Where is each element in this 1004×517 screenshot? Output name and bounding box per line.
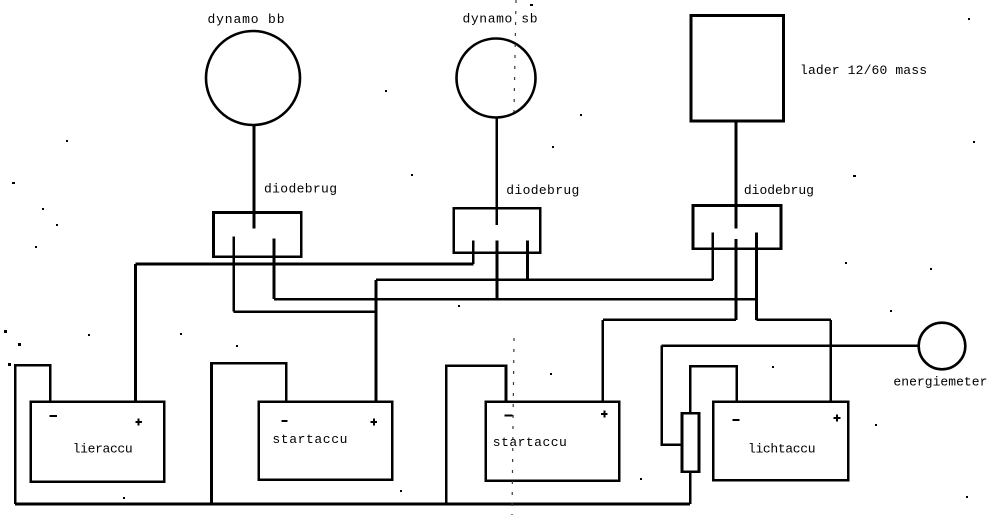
diodebrug 3 middle pin — [735, 239, 738, 320]
battery lichtaccu box — [713, 402, 848, 481]
wire energiemeter down to shunt tap — [662, 346, 682, 445]
wire y311 horizontal (diodebrug 1 left pin to startaccu1 + riser) — [234, 310, 376, 313]
svg-text:diodebrug: diodebrug — [264, 182, 337, 197]
svg-text:lichtaccu: lichtaccu — [748, 442, 816, 457]
diodebrug 2 middle pin — [496, 240, 499, 299]
plus terminal lieraccu — [135, 419, 142, 426]
plus terminal lichtaccu — [834, 415, 841, 422]
wire net y264 horizontal (lieraccu+ to diodebrug 2 left pin) — [136, 263, 474, 266]
svg-text:startaccu: startaccu — [272, 432, 347, 447]
wire vertical to startaccu1 + — [375, 280, 378, 402]
wire vertical to lichtaccu + — [830, 320, 833, 402]
diodebrug 2 right pin — [526, 240, 529, 279]
ground bus (mass) bottom wire — [15, 503, 690, 506]
minus terminal startaccu 2 — [505, 415, 513, 417]
wire startaccu1 minus riser to ground bus — [212, 363, 287, 504]
wire dynamo BB lead down to diodebrug 1 — [253, 125, 256, 228]
svg-text:diodebrug: diodebrug — [744, 183, 814, 198]
diodebrug 1 left pin — [232, 237, 235, 312]
svg-text:dynamo bb: dynamo bb — [208, 12, 285, 27]
shunt (meter shunt box) — [682, 413, 699, 472]
diodebrug 2 (rectifier box) — [454, 208, 540, 253]
wire startaccu2 minus riser to ground bus — [446, 366, 506, 504]
wire y320 left segment (diodebrug3 mid to startaccu2 + riser) — [603, 318, 736, 321]
wire net y299 horizontal (diodebrug1 right - diodebrug2 mid - diodebrug3 right) — [274, 298, 757, 301]
wire lichtaccu minus riser to shunt top — [690, 366, 737, 413]
scan crease dashed line top — [514, 0, 516, 112]
plus terminal startaccu 1 — [371, 419, 378, 426]
wire vertical to startaccu2 + — [602, 320, 605, 402]
plus terminal startaccu 2 — [601, 411, 608, 418]
diodebrug 1 right pin — [273, 239, 276, 300]
dynamo BB (motor circle) — [206, 31, 300, 125]
wire vertical to lieraccu + — [134, 264, 137, 402]
svg-text:dynamo sb: dynamo sb — [463, 12, 538, 27]
wire net y280 horizontal (startaccu1+ to diodebrug3 left pin) — [376, 278, 713, 281]
wire dynamo SB lead down to diodebrug 2 — [495, 118, 498, 226]
lader 12/60 mass (charger box) — [691, 16, 784, 122]
svg-text:lader 12/60 mass: lader 12/60 mass — [800, 63, 927, 78]
svg-text:lieraccu: lieraccu — [73, 442, 133, 457]
dynamo SB (motor circle) — [457, 39, 536, 118]
diodebrug 3 (rectifier box) — [693, 206, 781, 249]
scan crease dashed line bottom — [512, 338, 514, 515]
diodebrug 3 right pin — [755, 233, 758, 320]
wire y320 right segment (diodebrug3 right pin to lichtaccu + riser) — [757, 318, 831, 321]
wire shunt bottom to ground bus — [689, 472, 692, 504]
diodebrug 1 (rectifier box) — [214, 213, 302, 257]
energiemeter (meter circle) — [919, 323, 966, 370]
minus terminal lichtaccu — [733, 419, 740, 421]
minus terminal startaccu 1 — [281, 420, 287, 422]
svg-text:startaccu: startaccu — [493, 435, 567, 450]
battery lieraccu box — [31, 402, 164, 482]
diodebrug 3 left pin — [712, 233, 715, 280]
wire energiemeter horizontal lead — [662, 344, 919, 347]
wire lieraccu minus riser — [15, 365, 50, 504]
svg-text:energiemeter: energiemeter — [893, 375, 987, 390]
wire lader lead down to diodebrug 3 — [735, 121, 738, 229]
battery startaccu 1 box — [259, 402, 393, 480]
minus terminal lieraccu — [50, 415, 58, 417]
battery startaccu 2 box — [486, 402, 620, 481]
diodebrug 2 left pin — [472, 240, 475, 264]
svg-text:diodebrug: diodebrug — [506, 183, 579, 198]
